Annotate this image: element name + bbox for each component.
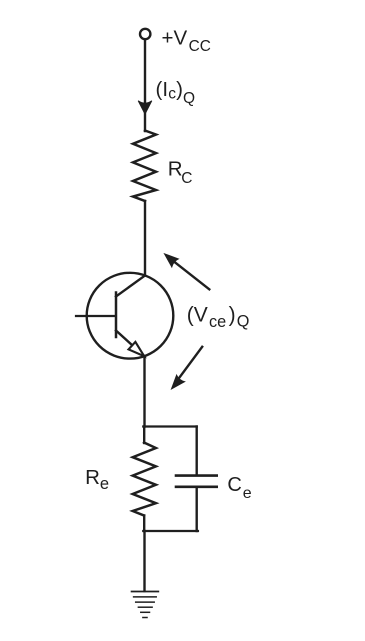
wire emitter down to node A xyxy=(143,356,145,427)
node junction bottom xyxy=(143,530,198,532)
svg-text:): ) xyxy=(229,303,236,326)
svg-text:c: c xyxy=(168,85,176,102)
ground xyxy=(132,592,159,618)
transistor Q1 xyxy=(87,273,174,359)
svg-text:(I: (I xyxy=(156,78,169,101)
svg-text:ce: ce xyxy=(209,313,226,331)
svg-text:+V: +V xyxy=(162,26,188,49)
svg-text:C: C xyxy=(227,474,241,496)
wire Re to bottom junction xyxy=(143,516,145,532)
svg-text:CC: CC xyxy=(189,38,211,55)
wire to ground xyxy=(143,531,145,591)
svg-text:Q: Q xyxy=(183,90,195,107)
terminal +VCC xyxy=(140,29,150,39)
base wire xyxy=(76,315,115,317)
wire cap branch top xyxy=(195,427,197,475)
svg-text:R: R xyxy=(85,466,100,489)
wire VCC to RC xyxy=(144,41,146,131)
resistor Re xyxy=(133,443,156,516)
svg-text:C: C xyxy=(181,170,192,187)
svg-text:(V: (V xyxy=(187,303,208,326)
svg-text:e: e xyxy=(100,475,109,493)
wire RC to transistor collector xyxy=(144,201,146,276)
wire cap to bottom junction xyxy=(195,488,197,531)
capacitor Ce xyxy=(176,476,217,487)
resistor RC xyxy=(133,131,156,202)
arrow down (Vce) xyxy=(172,347,203,389)
svg-text:): ) xyxy=(176,78,183,101)
node junction top xyxy=(143,425,196,427)
svg-text:e: e xyxy=(243,485,252,502)
wire node to Re xyxy=(143,427,145,444)
current arrow (Ic)Q xyxy=(138,101,152,114)
svg-text:Q: Q xyxy=(237,313,250,331)
arrow up (Vce) xyxy=(165,254,210,289)
